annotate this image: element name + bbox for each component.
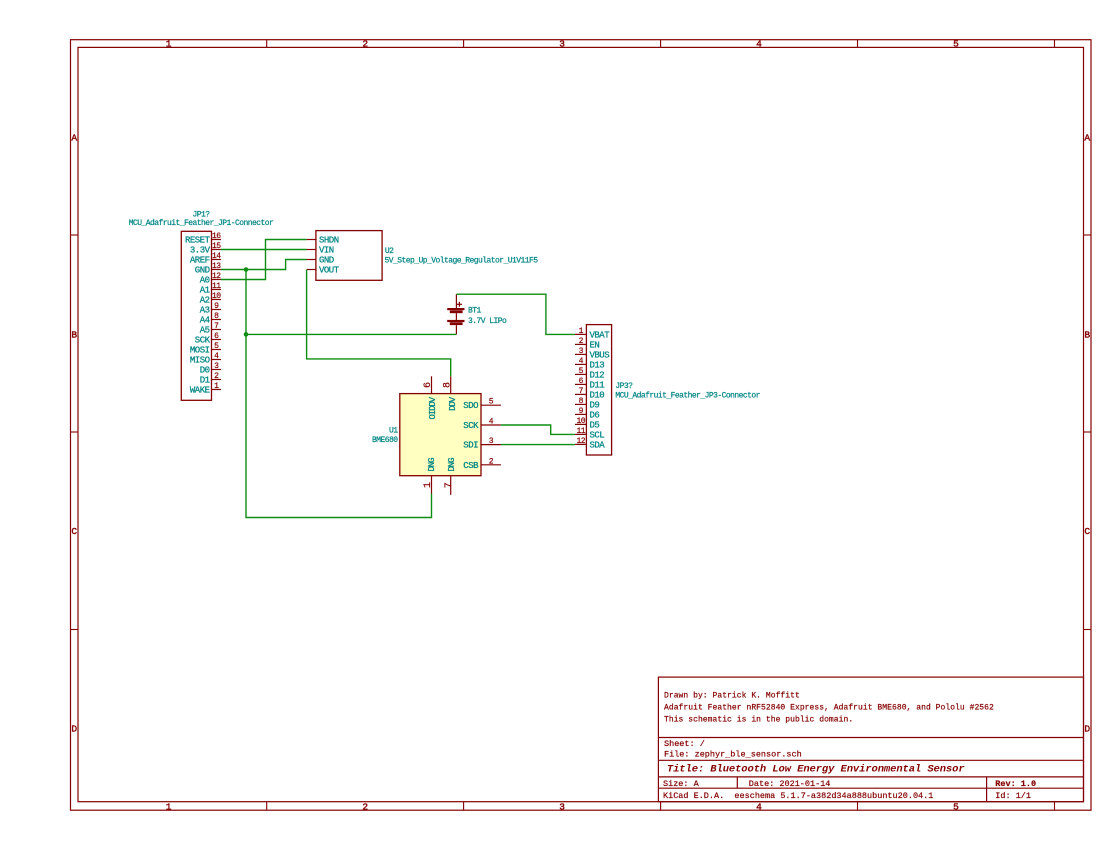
JP1 pin 14 (AREF) stub	[212, 259, 222, 261]
svg-text:AREF: AREF	[190, 256, 210, 266]
svg-text:C: C	[1084, 526, 1090, 537]
border row ticks	[71, 235, 1092, 630]
svg-text:RESET: RESET	[185, 236, 211, 246]
svg-text:SDO: SDO	[463, 401, 478, 411]
JP3 pin 1 (VBAT) stub	[575, 333, 586, 335]
svg-text:A0: A0	[200, 276, 210, 286]
svg-text:VOUT: VOUT	[319, 266, 340, 276]
svg-text:3: 3	[489, 437, 494, 446]
svg-text:1: 1	[423, 482, 434, 488]
U1 pin 1 (GND) stub	[431, 476, 433, 494]
svg-text:11: 11	[212, 282, 221, 291]
svg-text:B: B	[71, 329, 77, 340]
svg-text:3: 3	[214, 362, 219, 371]
svg-text:MISO: MISO	[190, 356, 210, 366]
border row letters left	[71, 133, 77, 735]
svg-text:10: 10	[576, 417, 585, 426]
U1 pin 4 (SCK) stub	[481, 424, 501, 426]
svg-text:13: 13	[212, 262, 221, 271]
svg-text:MCU_Adafruit_Feather_JP3-Conne: MCU_Adafruit_Feather_JP3-Connector	[615, 391, 760, 400]
JP3 pin 6 (D11) stub	[575, 383, 586, 385]
svg-text:MCU_Adafruit_Feather_JP1-Conne: MCU_Adafruit_Feather_JP1-Connector	[129, 219, 274, 228]
connector JP1 body	[181, 231, 211, 400]
border column ticks	[267, 40, 1055, 811]
svg-text:5: 5	[953, 801, 959, 812]
svg-text:D13: D13	[590, 360, 605, 370]
svg-text:8: 8	[579, 397, 584, 406]
svg-text:5V_Step_Up_Voltage_Regulator_U: 5V_Step_Up_Voltage_Regulator_U1V11F5	[385, 257, 539, 266]
U1 pin 7 (GND) stub	[450, 476, 452, 495]
svg-text:SDA: SDA	[590, 440, 606, 450]
battery BT1 plus sign	[457, 302, 462, 307]
svg-text:6: 6	[579, 377, 584, 386]
svg-text:D: D	[448, 405, 458, 410]
wire JP1 GND to U2 GND	[221, 260, 307, 270]
svg-text:SCL: SCL	[590, 430, 605, 440]
wire GND bus to battery BT1 negative	[246, 333, 456, 335]
U1 pin 8 (VDD) stub	[450, 376, 452, 393]
svg-text:7: 7	[444, 482, 455, 488]
svg-text:D: D	[1084, 724, 1090, 735]
svg-text:4: 4	[489, 418, 494, 427]
battery BT1 cell 1 negative plate	[450, 310, 463, 313]
svg-text:7: 7	[579, 387, 584, 396]
svg-text:BME680: BME680	[372, 436, 398, 445]
svg-text:D10: D10	[590, 390, 605, 400]
svg-text:SCK: SCK	[195, 336, 211, 346]
sensor U1 BME680 body	[400, 394, 481, 476]
svg-text:Date: 2021-01-14: Date: 2021-01-14	[749, 779, 831, 789]
svg-text:3.7V LIPo: 3.7V LIPo	[468, 317, 507, 326]
U1 pin 8 name VDD	[448, 396, 458, 411]
svg-text:4: 4	[756, 801, 762, 812]
JP1 pin 10 (A2) stub	[212, 299, 222, 301]
svg-text:A: A	[71, 133, 77, 144]
svg-text:GND: GND	[319, 256, 334, 266]
svg-text:SDI: SDI	[463, 441, 478, 451]
JP1 pin 12 (A0) stub	[212, 279, 222, 281]
svg-text:2: 2	[214, 372, 219, 381]
U2 pin SHDN stub	[307, 239, 316, 241]
svg-text:CSB: CSB	[463, 461, 479, 471]
svg-text:D9: D9	[590, 400, 600, 410]
svg-text:GND: GND	[195, 266, 210, 276]
JP1 pin 6 (SCK) stub	[212, 339, 222, 341]
border column numbers bottom	[166, 801, 959, 812]
svg-text:1: 1	[166, 38, 172, 49]
svg-text:8: 8	[214, 312, 219, 321]
svg-text:EN: EN	[590, 340, 600, 350]
svg-text:6: 6	[214, 332, 219, 341]
svg-text:4: 4	[756, 38, 762, 49]
svg-text:9: 9	[214, 302, 219, 311]
svg-text:A2: A2	[200, 296, 210, 306]
U2 pin GND stub	[307, 259, 316, 261]
svg-text:15: 15	[212, 242, 221, 251]
connector JP3 body	[586, 325, 611, 455]
U1 pin 5 (SDO) stub	[481, 404, 501, 406]
junction at GND pin row	[244, 267, 249, 272]
border row letters right	[1084, 133, 1090, 735]
svg-text:5: 5	[489, 398, 494, 407]
svg-text:Sheet: /: Sheet: /	[664, 739, 705, 749]
svg-text:9: 9	[579, 407, 584, 416]
svg-text:4: 4	[579, 357, 584, 366]
svg-text:C: C	[71, 526, 77, 537]
svg-text:5: 5	[579, 367, 584, 376]
svg-text:O: O	[428, 414, 438, 419]
svg-text:D6: D6	[590, 410, 600, 420]
svg-text:JP3?: JP3?	[615, 382, 633, 391]
svg-text:D5: D5	[590, 420, 600, 430]
wire U2 VOUT to U1 VDD	[307, 270, 451, 377]
svg-text:VBUS: VBUS	[590, 350, 610, 360]
svg-text:Rev: 1.0: Rev: 1.0	[995, 779, 1036, 789]
wire GND bus vertical to U1 GND	[246, 270, 432, 518]
svg-text:D: D	[447, 466, 457, 471]
svg-text:4: 4	[214, 352, 219, 361]
U1 pin 3 (SDI) stub	[481, 444, 501, 446]
JP1 pin 11 (A1) stub	[212, 289, 222, 291]
svg-text:5: 5	[214, 342, 219, 351]
wire 3.3V to U2 VIN	[221, 249, 307, 251]
svg-text:14: 14	[212, 252, 221, 261]
U1 pin 6 name VDDIO	[428, 396, 438, 419]
svg-text:11: 11	[576, 427, 585, 436]
U1 pin 6 (VDDIO) stub	[431, 376, 433, 393]
svg-text:VBAT: VBAT	[590, 330, 611, 340]
JP3 pin 8 (D9) stub	[575, 403, 586, 405]
svg-text:MOSI: MOSI	[190, 346, 210, 356]
svg-text:Size: A: Size: A	[663, 779, 700, 789]
JP1 pin 1 (WAKE) stub	[212, 389, 222, 391]
svg-text:A3: A3	[200, 306, 210, 316]
svg-text:D1: D1	[200, 376, 210, 386]
svg-text:3: 3	[559, 38, 565, 49]
svg-text:BT1: BT1	[468, 307, 482, 316]
battery BT1 bottom pin	[455, 325, 457, 334]
JP3 pin 5 (D12) stub	[575, 373, 586, 375]
JP3 pin 7 (D10) stub	[575, 393, 586, 395]
svg-text:1: 1	[579, 327, 584, 336]
battery BT1 cell 1 positive plate	[447, 308, 464, 310]
svg-text:2: 2	[362, 38, 368, 49]
svg-text:File: zephyr_ble_sensor.sch: File: zephyr_ble_sensor.sch	[664, 749, 802, 759]
svg-text:SHDN: SHDN	[319, 236, 339, 246]
battery BT1 cell 2 positive plate	[447, 320, 464, 322]
svg-text:D: D	[71, 724, 77, 735]
title block frame	[658, 677, 1083, 802]
svg-text:WAKE: WAKE	[190, 386, 210, 396]
svg-text:A1: A1	[200, 286, 210, 296]
svg-text:7: 7	[214, 322, 219, 331]
svg-text:D: D	[427, 466, 437, 471]
JP1 pin 2 (D1) stub	[212, 379, 222, 381]
svg-text:5: 5	[953, 38, 959, 49]
battery BT1 cell 2 negative plate	[450, 322, 463, 325]
JP1 pin 7 (A5) stub	[212, 329, 222, 331]
svg-text:8: 8	[443, 382, 454, 388]
svg-text:Adafruit Feather nRF52840 Expr: Adafruit Feather nRF52840 Express, Adafr…	[664, 704, 994, 713]
svg-text:12: 12	[576, 437, 585, 446]
U2 pin VIN stub	[307, 249, 316, 251]
svg-text:1: 1	[214, 382, 219, 391]
svg-text:U1: U1	[389, 426, 398, 435]
JP1 pin 3 (D0) stub	[212, 369, 222, 371]
JP3 pin 3 (VBUS) stub	[575, 353, 586, 355]
battery BT1 top pin	[455, 294, 457, 308]
svg-text:This schematic is in the publi: This schematic is in the public domain.	[664, 715, 853, 724]
svg-text:2: 2	[489, 457, 494, 466]
svg-text:1: 1	[166, 801, 172, 812]
wire U1 SDI to JP3 SDA	[501, 444, 575, 446]
battery BT1 inter-cell link	[455, 313, 457, 320]
svg-text:KiCad E.D.A. eeschema 5.1.7-a: KiCad E.D.A. eeschema 5.1.7-a382d34a888u…	[663, 791, 933, 801]
svg-text:Drawn by: Patrick K. Moffitt: Drawn by: Patrick K. Moffitt	[664, 692, 800, 701]
JP1 pin 4 (MISO) stub	[212, 359, 222, 361]
JP3 pin 4 (D13) stub	[575, 363, 586, 365]
svg-text:3: 3	[579, 347, 584, 356]
JP3 pin 2 (EN) stub	[575, 343, 586, 345]
svg-text:B: B	[1084, 329, 1090, 340]
border column numbers top	[166, 38, 959, 49]
svg-text:VIN: VIN	[319, 246, 334, 256]
JP1 pin 15 (3.3V) stub	[212, 249, 222, 251]
svg-text:D0: D0	[200, 366, 210, 376]
svg-text:6: 6	[423, 382, 434, 388]
svg-text:Id: 1/1: Id: 1/1	[995, 791, 1031, 801]
U1 pin 7 name GND	[447, 457, 457, 471]
svg-text:SCK: SCK	[463, 421, 479, 431]
JP3 pin 11 (SCL) stub	[575, 433, 586, 435]
JP1 pin 8 (A4) stub	[212, 319, 222, 321]
svg-text:16: 16	[212, 232, 221, 241]
JP3 pin 12 (SDA) stub	[575, 443, 586, 445]
JP3 pin 9 (D6) stub	[575, 413, 586, 415]
svg-text:A: A	[1084, 133, 1090, 144]
svg-text:2: 2	[362, 801, 368, 812]
JP1 pin 16 (RESET) stub	[212, 239, 222, 241]
svg-text:2: 2	[579, 337, 584, 346]
JP3 pin 10 (D5) stub	[575, 423, 586, 425]
svg-text:3.3V: 3.3V	[190, 246, 211, 256]
JP1 pin 9 (A3) stub	[212, 309, 222, 311]
regulator U2 body	[316, 231, 382, 281]
U1 pin 1 name GND	[427, 457, 437, 471]
JP1 pin 13 (GND) stub	[212, 269, 222, 271]
svg-text:Title: Bluetooth Low Energy En: Title: Bluetooth Low Energy Environmenta…	[667, 764, 965, 776]
wire JP1 A0 to U2 SHDN	[221, 240, 307, 280]
svg-text:10: 10	[212, 292, 221, 301]
svg-text:A5: A5	[200, 326, 210, 336]
svg-text:D11: D11	[590, 380, 605, 390]
wire battery BT1 positive to JP3 VBAT	[456, 294, 575, 334]
svg-text:U2: U2	[385, 247, 394, 256]
svg-text:A4: A4	[200, 316, 210, 326]
junction at battery negative row	[244, 332, 249, 337]
U2 pin VOUT stub	[307, 269, 316, 271]
svg-text:D12: D12	[590, 370, 605, 380]
svg-text:12: 12	[212, 272, 221, 281]
svg-text:3: 3	[559, 801, 565, 812]
JP1 pin 5 (MOSI) stub	[212, 349, 222, 351]
wire U1 SCK to JP3 SCL	[501, 425, 575, 434]
U1 pin 2 (CSB) stub	[481, 464, 501, 466]
